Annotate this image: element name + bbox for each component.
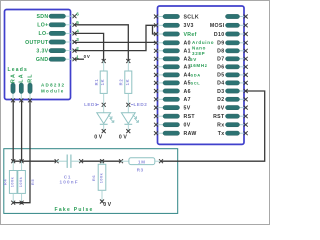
resistor R2 1K	[119, 59, 132, 107]
Arduino right pin D7 row 6	[217, 57, 248, 63]
Arduino left pin A3	[154, 65, 191, 71]
Arduino Nano description label	[190, 40, 214, 68]
svg-text:D7: D7	[217, 57, 224, 63]
svg-text:3: 3	[76, 37, 79, 42]
svg-text:SCL: SCL	[191, 81, 201, 86]
C1 value label	[60, 175, 79, 185]
Arduino Nano U2 body	[158, 6, 245, 144]
svg-text:Nano: Nano	[192, 46, 206, 51]
svg-text:R2: R2	[119, 79, 124, 86]
svg-text:0V: 0V	[217, 105, 224, 111]
Arduino right pin D10 row 3	[214, 32, 248, 38]
AD8232 lead pin LA	[19, 73, 25, 102]
svg-text:RST: RST	[213, 114, 225, 120]
Arduino left pin 5V	[154, 105, 191, 111]
junction node at R6 top	[100, 159, 104, 163]
Arduino left pin A5	[154, 81, 191, 87]
Fake Pulse enclosure	[4, 149, 178, 214]
svg-text:6: 6	[76, 11, 79, 16]
junction node at R4 top	[11, 159, 15, 163]
Arduino right pin D5 row 8	[217, 73, 248, 79]
svg-text:R1: R1	[94, 79, 99, 86]
svg-text:MOSI: MOSI	[210, 23, 225, 29]
AD8232 lead pin RL	[27, 73, 33, 102]
svg-text:Module: Module	[41, 88, 65, 93]
svg-text:D8: D8	[217, 49, 224, 55]
Arduino left pin 3V3	[154, 23, 194, 29]
svg-text:3.3V: 3.3V	[36, 48, 48, 54]
svg-text:5V: 5V	[184, 105, 191, 111]
svg-text:SCLK: SCLK	[184, 14, 200, 20]
wire RA to divider top	[12, 100, 14, 161]
Arduino left pin A7	[154, 97, 191, 103]
resistor R6 100k	[91, 161, 106, 201]
svg-text:R4: R4	[2, 179, 7, 185]
svg-text:A7: A7	[184, 97, 191, 103]
node 0V at module GND	[75, 54, 91, 59]
AD8232 pin 2 (3.3V)	[36, 46, 79, 55]
svg-text:0V: 0V	[184, 123, 191, 129]
svg-text:RST: RST	[184, 114, 196, 120]
Arduino right pin D6 row 7	[217, 65, 248, 71]
svg-text:A6: A6	[184, 89, 191, 95]
svg-text:A2: A2	[184, 57, 191, 63]
capacitor C1 100nF	[55, 155, 84, 168]
svg-text:OUTPUT: OUTPUT	[25, 40, 49, 46]
Arduino left pin VRef	[154, 32, 197, 38]
svg-text:D5: D5	[217, 73, 224, 79]
svg-text:LO-: LO-	[39, 31, 49, 37]
svg-text:100nF: 100nF	[60, 180, 79, 185]
AD8232 lead pin RA	[10, 73, 16, 102]
Arduino right pin D2 row 11	[217, 97, 248, 103]
Arduino right pin Rx row 14	[217, 123, 248, 129]
svg-text:A1: A1	[184, 49, 191, 55]
resistor R5 100k	[18, 161, 35, 205]
svg-text:D4: D4	[217, 81, 224, 87]
Arduino right pin D3 row 10	[217, 89, 248, 95]
svg-text:1K: 1K	[125, 79, 130, 86]
AD8232 pin 6 (SDN)	[36, 11, 79, 20]
Arduino left pin SCLK	[154, 14, 199, 20]
Arduino right pin 0V row 12	[217, 105, 247, 111]
LED1 label	[84, 102, 99, 107]
svg-text:Leads: Leads	[8, 67, 28, 73]
svg-text:RL: RL	[27, 73, 33, 83]
Arduino right pin D4 row 9	[217, 81, 248, 87]
svg-text:Fake Pulse: Fake Pulse	[55, 207, 94, 213]
wire LO+ to R2	[75, 25, 129, 61]
AD8232 module label	[41, 83, 65, 94]
AD8232 pin 4 (LO-)	[39, 29, 80, 38]
svg-text:100k: 100k	[19, 176, 23, 187]
svg-text:R5: R5	[30, 179, 35, 185]
svg-text:LED1: LED1	[84, 102, 98, 107]
Arduino left pin 0V	[154, 123, 191, 129]
svg-text:D3: D3	[217, 89, 224, 95]
svg-text:Rx: Rx	[217, 123, 224, 129]
svg-text:R6: R6	[91, 175, 96, 181]
resistor R1 1K	[94, 59, 107, 107]
wire RL down to divider bottom	[13, 100, 30, 202]
Arduino left pin A1	[154, 49, 191, 55]
svg-text:LO+: LO+	[37, 23, 48, 29]
Arduino left pin A0	[154, 41, 191, 47]
svg-text:0V: 0V	[84, 54, 91, 59]
svg-text:1M: 1M	[138, 160, 146, 165]
svg-text:AD8232: AD8232	[41, 83, 65, 88]
Arduino left pin RST	[154, 114, 195, 120]
wire top rail to C1	[13, 160, 56, 162]
Arduino right pin RST row 13	[213, 114, 248, 120]
svg-text:GND: GND	[36, 57, 49, 63]
AD8232 pin 3 (OUTPUT)	[25, 37, 79, 46]
svg-text:SDN: SDN	[36, 14, 48, 20]
svg-text:Arduino: Arduino	[192, 40, 214, 45]
svg-text:328P: 328P	[192, 51, 205, 56]
Arduino left pin A6	[154, 89, 191, 95]
svg-text:0V: 0V	[119, 135, 129, 141]
svg-text:1K: 1K	[100, 79, 105, 86]
screenshot window border	[1, 1, 270, 225]
wire branch 3V3 to VRef	[153, 25, 157, 34]
svg-text:D10: D10	[214, 32, 225, 38]
svg-text:RAW: RAW	[184, 131, 197, 137]
Arduino right pin D9 row 4	[217, 41, 248, 47]
svg-text:5V: 5V	[190, 57, 197, 62]
resistor R4 100k	[2, 161, 17, 205]
svg-text:VRef: VRef	[184, 32, 197, 38]
Arduino right pin Tx row 15	[218, 131, 248, 137]
svg-text:D9: D9	[217, 41, 224, 47]
Arduino left pin A2	[154, 57, 191, 63]
junction node at R5 top	[20, 159, 24, 163]
ground 0V under LED1	[94, 129, 105, 141]
resistor R3 1M	[119, 158, 163, 173]
svg-text:A3: A3	[184, 65, 191, 71]
LED LED1	[97, 105, 114, 131]
Arduino right pin D8 row 5	[217, 49, 248, 55]
Arduino right pin NC row 1	[226, 14, 248, 18]
AD8232 pin 1 (GND)	[36, 54, 79, 63]
LED LED2	[121, 105, 138, 131]
svg-text:R3: R3	[137, 168, 144, 173]
svg-text:D6: D6	[217, 65, 224, 71]
LED2 label	[131, 102, 147, 107]
svg-text:16MHz: 16MHz	[190, 63, 208, 68]
svg-text:Tx: Tx	[218, 131, 225, 137]
wire LO- to R1	[75, 33, 104, 61]
svg-text:D2: D2	[217, 97, 224, 103]
svg-text:RA: RA	[10, 73, 16, 83]
svg-text:0V: 0V	[94, 135, 104, 141]
AD8232 module U1 body	[5, 10, 71, 100]
svg-text:100k: 100k	[11, 176, 15, 187]
ground 0V under R6	[100, 200, 113, 208]
svg-text:LED2: LED2	[134, 102, 148, 107]
svg-text:3V3: 3V3	[184, 23, 194, 29]
svg-text:100k: 100k	[99, 172, 103, 183]
Arduino right pin MOSI row 2	[210, 23, 248, 29]
AD8232 pin 5 (LO+)	[37, 20, 79, 29]
Arduino left pin RAW	[154, 131, 197, 137]
svg-text:A0: A0	[184, 41, 191, 47]
svg-text:LA: LA	[19, 73, 25, 83]
wire LA to divider mid	[21, 100, 23, 161]
svg-text:0V: 0V	[103, 202, 113, 208]
wire R3 to Arduino D3	[161, 91, 265, 161]
wire C1 to R3	[81, 160, 121, 162]
wire 3.3V to 3V3	[75, 25, 157, 50]
Arduino left pin A4	[154, 73, 191, 79]
wire OUTPUT to A0	[75, 41, 157, 43]
svg-text:SDA: SDA	[191, 73, 201, 78]
ground 0V under LED2	[119, 129, 130, 141]
